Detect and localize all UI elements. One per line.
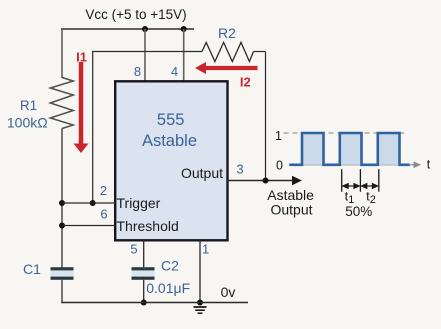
svg-text:8: 8 [134, 64, 141, 79]
wire trigger pin 2 [62, 202, 116, 204]
svg-text:5: 5 [130, 242, 137, 257]
svg-text:3: 3 [236, 162, 243, 177]
dimension arrow t2 [361, 184, 377, 189]
capacitor C1 [51, 267, 74, 280]
current arrow I2 [195, 62, 258, 74]
wire R2 feedback vertical from trigger node [92, 52, 94, 204]
wire R2 drop to output [265, 52, 267, 181]
waveform square wave fills [302, 133, 400, 165]
dimension arrow t1 [343, 184, 360, 189]
dimension tick 1 [341, 169, 343, 192]
svg-text:I1: I1 [76, 49, 87, 64]
wire R2 right lead [254, 51, 266, 53]
svg-text:Astable: Astable [142, 132, 197, 150]
wire C1 bottom [61, 280, 63, 303]
svg-text:R2: R2 [218, 25, 236, 41]
svg-text:C2: C2 [161, 258, 179, 274]
svg-text:I2: I2 [240, 75, 251, 90]
current arrow I1 [74, 62, 89, 153]
svg-text:100kΩ: 100kΩ [7, 114, 48, 130]
svg-text:Astable: Astable [267, 187, 314, 203]
waveform axis arrow [414, 162, 422, 169]
svg-text:Trigger: Trigger [117, 195, 161, 211]
wire pin 8 drop [144, 29, 146, 81]
svg-text:1: 1 [275, 129, 282, 143]
svg-text:50%: 50% [345, 204, 372, 219]
svg-text:Vcc (+5 to +15V): Vcc (+5 to +15V) [85, 7, 186, 22]
wire threshold pin 6 [62, 225, 116, 227]
arrow output [292, 176, 302, 186]
wire ground rail 0v [61, 302, 248, 304]
svg-text:C1: C1 [23, 261, 41, 277]
node R2-output junction [263, 178, 269, 184]
svg-text:555: 555 [157, 111, 185, 129]
waveform high level dashed line [284, 132, 404, 134]
node trigger junction left rail [59, 200, 65, 206]
svg-text:R1: R1 [20, 98, 37, 113]
wire R2 left lead [92, 51, 202, 53]
ground symbol [194, 307, 207, 313]
svg-text:1: 1 [202, 242, 209, 257]
svg-text:4: 4 [171, 64, 178, 79]
wire pin 1 drop [199, 241, 201, 304]
IC U1 555 body [115, 81, 227, 240]
node R2 to trigger junction [90, 200, 96, 206]
dimension tick 3 [378, 169, 380, 192]
resistor R2 [202, 42, 254, 61]
svg-text:Output: Output [270, 202, 312, 218]
node C2 ground junction [141, 300, 147, 306]
wire pin 5 drop [143, 241, 145, 268]
resistor R1 [50, 78, 73, 129]
wire Vcc drop to R1 [61, 28, 63, 78]
dimension tick 2 [359, 169, 361, 192]
node pin1 ground junction [197, 300, 203, 306]
wire C2 bottom [143, 280, 145, 303]
svg-text:Output: Output [181, 165, 223, 181]
node junction pin8 on Vcc rail [142, 26, 148, 32]
wire pin 4 drop [183, 29, 185, 81]
svg-text:0: 0 [276, 158, 283, 172]
svg-text:t: t [427, 158, 431, 172]
capacitor C2 [132, 267, 155, 280]
svg-text:0v: 0v [221, 284, 236, 300]
svg-text:0.01μF: 0.01μF [146, 280, 190, 296]
wire R1 bottom to C1 [61, 129, 63, 268]
waveform time axis [289, 164, 416, 166]
wire Vcc rail [61, 28, 194, 30]
node junction pin4 on Vcc rail [181, 26, 187, 32]
waveform square wave trace [289, 133, 409, 165]
wire output pin 3 [227, 180, 294, 182]
svg-text:6: 6 [100, 206, 107, 221]
svg-text:2: 2 [100, 183, 107, 198]
node threshold junction left rail [59, 223, 65, 229]
svg-text:Threshold: Threshold [117, 218, 179, 234]
